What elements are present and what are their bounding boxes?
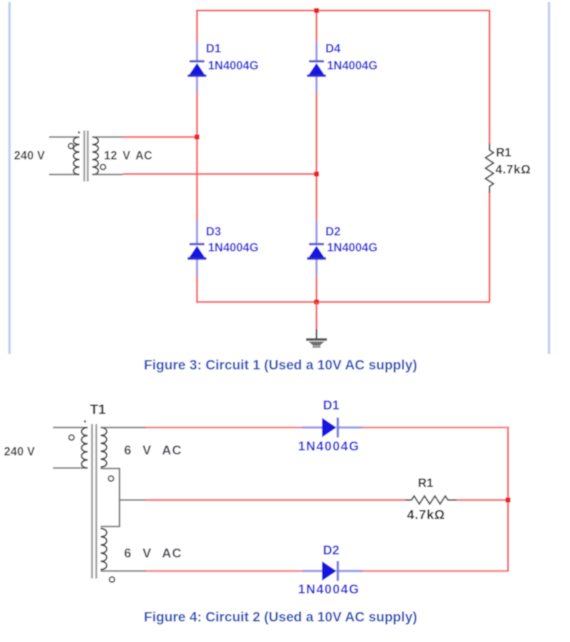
node transformer bottom junction: [314, 172, 319, 177]
wire left vertical: [196, 11, 198, 303]
wire top (secondary upper to D1 and on): [146, 427, 509, 429]
node output junction: [506, 498, 511, 503]
diode D4: [307, 42, 378, 93]
svg-text:D2: D2: [323, 543, 339, 558]
svg-text:1N4004G: 1N4004G: [298, 439, 360, 454]
transformer T1 (center-tapped): [53, 420, 146, 582]
svg-text:Figure 3: Circuit 1 (Used a 10: Figure 3: Circuit 1 (Used a 10V AC suppl…: [144, 358, 417, 373]
diode D2: [307, 221, 378, 276]
svg-text:D3: D3: [206, 225, 222, 239]
svg-text:1N4004G: 1N4004G: [327, 59, 378, 73]
svg-text:240 V: 240 V: [14, 151, 45, 163]
wire right vertical: [489, 11, 491, 303]
svg-text:R1: R1: [496, 146, 512, 160]
svg-text:D2: D2: [326, 225, 342, 239]
diode D1: [298, 398, 363, 454]
wire center vertical: [316, 11, 318, 303]
svg-text:1N4004G: 1N4004G: [208, 59, 259, 73]
wire top rail: [196, 10, 490, 12]
wire bottom (secondary lower to D2 and on): [146, 570, 509, 572]
svg-text:Figure 4: Circuit 2 (Used a 10: Figure 4: Circuit 2 (Used a 10V AC suppl…: [144, 610, 417, 625]
wire right vertical: [507, 428, 509, 572]
resistor R1 (4.7k, horizontal): [405, 476, 457, 522]
svg-text:6 V AC: 6 V AC: [124, 546, 182, 561]
svg-text:D4: D4: [326, 42, 342, 56]
node transformer top junction: [195, 135, 200, 140]
ground: [306, 302, 327, 347]
wire secondary bottom: [123, 173, 317, 175]
node top center junction: [314, 8, 319, 13]
diode D3: [188, 221, 259, 276]
svg-text:1N4004G: 1N4004G: [327, 241, 378, 255]
svg-text:6 V AC: 6 V AC: [124, 443, 182, 458]
svg-text:12 V AC: 12 V AC: [104, 151, 152, 163]
diode D2: [298, 543, 363, 597]
transformer (240V / 12V AC): [49, 131, 123, 182]
svg-text:1N4004G: 1N4004G: [298, 582, 360, 597]
wire center tap to R1: [146, 499, 508, 501]
svg-text:D1: D1: [206, 42, 222, 56]
wire secondary top: [123, 136, 197, 138]
svg-text:R1: R1: [418, 476, 434, 490]
svg-text:1N4004G: 1N4004G: [208, 241, 259, 255]
resistor R1 (4.7k, vertical): [486, 144, 531, 194]
diode D1: [188, 42, 259, 93]
node ground junction: [314, 300, 319, 305]
wire bottom rail: [196, 301, 490, 303]
svg-text:D1: D1: [323, 398, 339, 413]
svg-text:4.7kΩ: 4.7kΩ: [407, 507, 445, 522]
svg-text:T1: T1: [90, 402, 106, 417]
svg-text:240 V: 240 V: [4, 447, 35, 459]
svg-text:4.7kΩ: 4.7kΩ: [496, 163, 531, 177]
